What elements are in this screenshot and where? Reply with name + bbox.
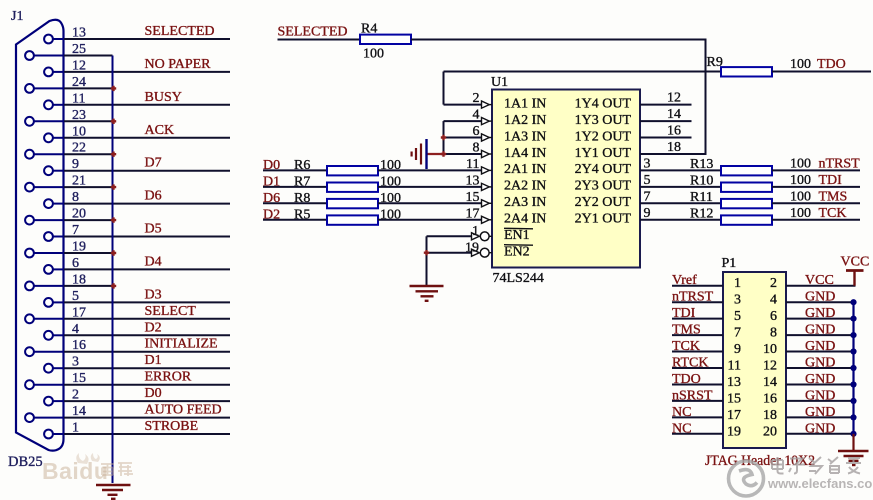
junction pin 21 on ground bus xyxy=(111,184,116,189)
svg-text:P1: P1 xyxy=(722,256,737,271)
svg-text:2A2 IN: 2A2 IN xyxy=(504,179,546,194)
connector J1 pin 2 circle xyxy=(44,397,53,406)
svg-text:20: 20 xyxy=(72,207,86,222)
wire pin 6 stub xyxy=(53,268,64,270)
wire GND bus to ground xyxy=(852,434,854,451)
wire P1 pin2 to VCC xyxy=(786,285,856,287)
wire U1 pin 18 to trunk xyxy=(640,153,707,155)
svg-text:18: 18 xyxy=(667,140,681,155)
wire P1 pin 4 GND xyxy=(786,301,854,303)
wire pin 4 stub xyxy=(53,334,64,336)
wire 1A2-1A4 bracket vertical xyxy=(443,121,445,154)
svg-text:GND: GND xyxy=(805,421,835,436)
junction GND row 8 xyxy=(850,414,856,420)
power symbol VCC xyxy=(853,271,855,286)
svg-text:100: 100 xyxy=(790,189,811,204)
wire pin 15 signal xyxy=(64,384,230,386)
junction at pin8 bracket xyxy=(441,151,446,156)
svg-text:NC: NC xyxy=(672,421,691,436)
svg-text:17: 17 xyxy=(727,408,741,423)
wire D1 to R7 xyxy=(263,186,327,188)
svg-text:12: 12 xyxy=(72,58,86,73)
svg-text:6: 6 xyxy=(473,124,480,139)
svg-text:2: 2 xyxy=(770,276,777,291)
wire pin 14 stub xyxy=(34,417,64,419)
wire pin 13 signal xyxy=(64,38,230,40)
connector J1 pin 6 circle xyxy=(44,265,53,274)
connector J1 pin 5 circle xyxy=(44,298,53,307)
svg-text:1A2 IN: 1A2 IN xyxy=(504,113,546,128)
junction EN2 xyxy=(424,250,429,255)
svg-text:23: 23 xyxy=(72,108,86,123)
connector J1 DB25 body outline xyxy=(16,20,64,451)
resistor R7 xyxy=(327,183,378,192)
svg-text:GND: GND xyxy=(805,388,835,403)
U1 pin 6 input symbol xyxy=(482,134,490,141)
svg-text:2: 2 xyxy=(473,91,480,106)
resistor R4 xyxy=(360,35,411,44)
svg-text:R11: R11 xyxy=(690,190,713,205)
U1 pin 2 input symbol xyxy=(482,101,490,108)
connector J1 pin 12 circle xyxy=(44,68,53,77)
svg-text:R12: R12 xyxy=(690,206,713,221)
wire pin 13 stub xyxy=(53,38,64,40)
svg-text:20: 20 xyxy=(763,424,777,439)
wire R10 to net TDI xyxy=(772,186,860,188)
wire pin 19 to ground bus xyxy=(64,252,113,254)
junction GND row 9 xyxy=(850,431,856,437)
wire pin 12 stub xyxy=(53,71,64,73)
svg-text:TCK: TCK xyxy=(819,206,847,221)
connector J1 pin 19 circle xyxy=(25,249,34,258)
svg-text:2Y3 OUT: 2Y3 OUT xyxy=(575,179,632,194)
junction GND row 7 xyxy=(850,398,856,404)
svg-text:16: 16 xyxy=(667,124,681,139)
svg-text:13: 13 xyxy=(72,26,86,41)
junction at pin6 bracket xyxy=(441,135,446,140)
wire R8 to chip xyxy=(378,202,482,204)
wire pin 16 signal xyxy=(64,351,230,353)
svg-text:100: 100 xyxy=(790,173,811,188)
svg-text:15: 15 xyxy=(727,391,741,406)
junction pin 18 on ground bus xyxy=(111,283,116,288)
svg-text:1: 1 xyxy=(472,224,479,239)
wire pin 11 signal xyxy=(64,104,230,106)
svg-text:GND: GND xyxy=(805,405,835,420)
svg-text:1A3 IN: 1A3 IN xyxy=(504,129,546,144)
wire pin 6 signal xyxy=(64,268,230,270)
wire pin 2 stub xyxy=(53,400,64,402)
wire to pin 6 xyxy=(444,137,482,139)
wire pin 14 signal xyxy=(64,417,230,419)
svg-text:14: 14 xyxy=(667,107,681,122)
svg-text:U1: U1 xyxy=(491,75,508,90)
svg-text:GND: GND xyxy=(805,290,835,305)
svg-text:2A1 IN: 2A1 IN xyxy=(504,162,546,177)
svg-text:R10: R10 xyxy=(690,173,713,188)
svg-text:3: 3 xyxy=(644,156,651,171)
wire pin 23 to ground bus xyxy=(64,120,113,122)
svg-text:10: 10 xyxy=(72,124,86,139)
resistor R9 xyxy=(721,67,772,76)
wire pin 20 to ground bus xyxy=(64,219,113,221)
svg-text:15: 15 xyxy=(72,371,86,386)
wire pin 25 stub xyxy=(34,55,64,57)
svg-text:9: 9 xyxy=(644,206,651,221)
wire to pin 2 xyxy=(444,104,482,106)
svg-text:GND: GND xyxy=(805,306,835,321)
wire EN1 xyxy=(427,235,472,237)
connector J1 pin 18 circle xyxy=(25,282,34,291)
resistor R10 xyxy=(721,183,772,192)
wire R13 to net nTRST xyxy=(772,169,860,171)
junction GND row 4 xyxy=(850,348,856,354)
svg-text:TDO: TDO xyxy=(817,57,846,72)
wire 1A1 bracket vertical xyxy=(443,72,445,105)
svg-text:1Y1 OUT: 1Y1 OUT xyxy=(575,146,632,161)
wire D0 to R6 xyxy=(263,169,327,171)
wire pin 9 stub xyxy=(53,170,64,172)
wire pin 2 signal xyxy=(64,400,230,402)
watermark baidu (decorative) xyxy=(76,453,100,464)
svg-text:15: 15 xyxy=(466,190,480,205)
wire pin 3 stub xyxy=(53,367,64,369)
svg-text:D2: D2 xyxy=(145,320,162,335)
svg-text:3: 3 xyxy=(734,293,741,308)
svg-text:12: 12 xyxy=(763,359,777,374)
wire pin 17 stub xyxy=(34,318,64,320)
wire R7 to chip xyxy=(378,186,482,188)
svg-text:2Y4 OUT: 2Y4 OUT xyxy=(575,162,632,177)
svg-text:5: 5 xyxy=(644,173,651,188)
svg-text:16: 16 xyxy=(763,391,777,406)
U1 pin 17 input symbol xyxy=(482,216,490,223)
svg-text:AUTO FEED: AUTO FEED xyxy=(145,403,222,418)
wire pin 24 stub xyxy=(34,87,64,89)
wire pin 23 stub xyxy=(34,120,64,122)
wire pin 8 stub xyxy=(53,203,64,205)
wire pin 3 signal xyxy=(64,367,230,369)
junction pin 20 on ground bus xyxy=(111,217,116,222)
wire pin 1 signal xyxy=(64,433,230,435)
svg-text:Baidu: Baidu xyxy=(42,458,108,484)
svg-text:DB25: DB25 xyxy=(8,454,43,470)
wire P1 pin 9 xyxy=(672,351,723,353)
svg-text:D0: D0 xyxy=(145,386,162,401)
svg-text:ACK: ACK xyxy=(145,123,175,138)
wire EN2 xyxy=(427,252,472,254)
wire to pin 4 xyxy=(444,120,482,122)
svg-text:1Y3 OUT: 1Y3 OUT xyxy=(575,113,632,128)
svg-text:22: 22 xyxy=(72,141,86,156)
svg-text:100: 100 xyxy=(363,47,384,62)
wire pin 10 stub xyxy=(53,137,64,139)
svg-text:TMS: TMS xyxy=(672,323,701,338)
svg-text:SELECT: SELECT xyxy=(145,304,197,319)
wire pin 19 stub xyxy=(34,252,64,254)
connector J1 pin 16 circle xyxy=(25,347,34,356)
svg-text:17: 17 xyxy=(466,206,480,221)
svg-text:11: 11 xyxy=(72,91,85,106)
wire ground bus vertical x=112 xyxy=(112,56,114,484)
wire pin 18 stub xyxy=(34,285,64,287)
svg-text:GND: GND xyxy=(805,339,835,354)
svg-text:24: 24 xyxy=(72,75,86,90)
watermark elecfans (decorative) xyxy=(729,461,873,496)
svg-text:100: 100 xyxy=(790,156,811,171)
wire P1 pin 11 xyxy=(672,367,723,369)
svg-text:nTRST: nTRST xyxy=(672,290,714,305)
wire P1 pin 16 GND xyxy=(786,400,854,402)
svg-text:SELECTED: SELECTED xyxy=(278,25,348,40)
svg-text:1Y4 OUT: 1Y4 OUT xyxy=(575,96,632,111)
wire R6 to chip xyxy=(378,169,482,171)
connector J1 pin 7 circle xyxy=(44,232,53,241)
svg-text:D1: D1 xyxy=(145,353,162,368)
wire P1 pin 15 xyxy=(672,400,723,402)
svg-text:19: 19 xyxy=(72,240,86,255)
svg-text:100: 100 xyxy=(790,206,811,221)
wire D6 to R8 xyxy=(263,202,327,204)
wire U1 to R11 xyxy=(640,202,721,204)
wire pin 1 stub xyxy=(53,433,64,435)
svg-text:www.elecfans.com: www.elecfans.com xyxy=(767,476,873,491)
svg-text:8: 8 xyxy=(770,326,777,341)
svg-text:74LS244: 74LS244 xyxy=(493,271,544,286)
svg-text:11: 11 xyxy=(466,157,479,172)
wire P1 pin 7 xyxy=(672,334,723,336)
resistor R5 xyxy=(327,215,378,224)
ground symbol (sideways) at 1A inputs xyxy=(427,153,444,155)
junction GND row 5 xyxy=(850,365,856,371)
resistor R8 xyxy=(327,199,378,208)
connector J1 pin 11 circle xyxy=(44,100,53,109)
junction GND row 6 xyxy=(850,381,856,387)
junction GND row 3 xyxy=(850,332,856,338)
wire to pin 8 xyxy=(444,153,482,155)
svg-text:D4: D4 xyxy=(145,254,162,269)
wire pin 5 stub xyxy=(53,301,64,303)
svg-text:STROBE: STROBE xyxy=(145,419,199,434)
ground symbol under DB25 xyxy=(96,485,131,499)
wire P1 pin 12 GND xyxy=(786,367,854,369)
wire P1 pin 5 xyxy=(672,318,723,320)
wire P1 pin 19 xyxy=(672,433,723,435)
connector J1 pin 24 circle xyxy=(25,84,34,93)
connector J1 pin 9 circle xyxy=(44,166,53,175)
svg-text:9: 9 xyxy=(72,157,79,172)
connector J1 pin 8 circle xyxy=(44,199,53,208)
svg-text:GND: GND xyxy=(805,372,835,387)
wire P1 pin 1 xyxy=(672,285,723,287)
svg-text:GND: GND xyxy=(805,323,835,338)
svg-text:VCC: VCC xyxy=(805,273,834,288)
svg-text:12: 12 xyxy=(667,91,681,106)
svg-text:D7: D7 xyxy=(145,156,162,171)
wire pin 10 signal xyxy=(64,137,230,139)
wire U1 to R12 xyxy=(640,219,721,221)
svg-text:2A3 IN: 2A3 IN xyxy=(504,195,546,210)
svg-text:VCC: VCC xyxy=(841,255,870,270)
svg-text:7: 7 xyxy=(644,189,651,204)
wire trunk vertical x=705 xyxy=(705,40,707,155)
svg-text:14: 14 xyxy=(72,404,86,419)
svg-text:17: 17 xyxy=(72,305,86,320)
wire U1 pin 12 stub xyxy=(640,104,692,106)
svg-text:J1: J1 xyxy=(11,9,23,24)
U1 pin 15 input symbol xyxy=(482,200,490,207)
svg-text:13: 13 xyxy=(727,375,741,390)
wire P1 pin 8 GND xyxy=(786,334,854,336)
U1 pin 19 enable symbol xyxy=(472,249,480,256)
svg-text:D5: D5 xyxy=(145,222,162,237)
svg-text:4: 4 xyxy=(72,322,79,337)
wire P1 pin 17 xyxy=(672,416,723,418)
U1 pin 4 input symbol xyxy=(482,118,490,125)
svg-text:2: 2 xyxy=(72,388,79,403)
svg-text:100: 100 xyxy=(790,57,811,72)
wire P1 pin 13 xyxy=(672,384,723,386)
wire pin 8 signal xyxy=(64,203,230,205)
connector J1 pin 3 circle xyxy=(44,364,53,373)
svg-text:ERROR: ERROR xyxy=(145,370,192,385)
U1 pin 1 enable symbol xyxy=(472,233,480,240)
svg-text:1A1 IN: 1A1 IN xyxy=(504,96,546,111)
junction GND row 2 xyxy=(850,316,856,322)
svg-text:7: 7 xyxy=(734,326,741,341)
svg-text:TCK: TCK xyxy=(672,339,700,354)
svg-text:NO PAPER: NO PAPER xyxy=(145,57,212,72)
svg-text:13: 13 xyxy=(466,173,480,188)
svg-text:INITIALIZE: INITIALIZE xyxy=(145,337,218,352)
wire P1 pin 6 GND xyxy=(786,318,854,320)
svg-text:1Y2 OUT: 1Y2 OUT xyxy=(575,129,632,144)
connector J1 pin 21 circle xyxy=(25,183,34,192)
svg-text:16: 16 xyxy=(72,338,86,353)
resistor R12 xyxy=(721,215,772,224)
svg-text:6: 6 xyxy=(72,256,79,271)
wire pin 11 stub xyxy=(53,104,64,106)
svg-text:TDO: TDO xyxy=(672,372,701,387)
svg-text:2A4 IN: 2A4 IN xyxy=(504,212,546,227)
connector J1 pin 20 circle xyxy=(25,216,34,225)
U1 pin 11 input symbol xyxy=(482,167,490,174)
connector J1 pin 17 circle xyxy=(25,314,34,323)
junction pin 19 on ground bus xyxy=(111,250,116,255)
svg-text:SELECTED: SELECTED xyxy=(145,24,215,39)
svg-text:2Y2 OUT: 2Y2 OUT xyxy=(575,195,632,210)
svg-text:BUSY: BUSY xyxy=(145,90,182,105)
svg-text:1A4 IN: 1A4 IN xyxy=(504,146,546,161)
svg-text:TMS: TMS xyxy=(819,189,848,204)
svg-text:7: 7 xyxy=(72,223,79,238)
wire pin 5 signal xyxy=(64,301,230,303)
svg-text:Vref: Vref xyxy=(672,273,697,288)
wire pin 15 stub xyxy=(34,384,64,386)
resistor R13 xyxy=(721,166,772,175)
svg-text:3: 3 xyxy=(72,355,79,370)
wire U1 pin 16 stub xyxy=(640,137,692,139)
svg-text:4: 4 xyxy=(770,293,777,308)
svg-text:EN1: EN1 xyxy=(504,228,530,243)
wire 1A1 feed horizontal y=71.5 xyxy=(444,71,722,73)
connector J1 pin 1 circle xyxy=(44,430,53,439)
svg-text:4: 4 xyxy=(473,108,480,123)
svg-text:TDI: TDI xyxy=(819,173,843,188)
wire pin 9 signal xyxy=(64,170,230,172)
connector J1 pin 22 circle xyxy=(25,150,34,159)
svg-text:9: 9 xyxy=(734,342,741,357)
svg-text:nTRST: nTRST xyxy=(819,156,861,171)
svg-text:2Y1 OUT: 2Y1 OUT xyxy=(575,212,632,227)
svg-text:18: 18 xyxy=(72,272,86,287)
connector J1 pin 23 circle xyxy=(25,117,34,126)
junction pin 22 on ground bus xyxy=(111,152,116,157)
svg-text:10: 10 xyxy=(763,342,777,357)
connector J1 pin 10 circle xyxy=(44,133,53,142)
wire pin 4 signal xyxy=(64,334,230,336)
wire P1 pin 10 GND xyxy=(786,351,854,353)
wire R4 to trunk xyxy=(411,39,707,41)
svg-text:21: 21 xyxy=(72,174,86,189)
svg-text:R13: R13 xyxy=(690,157,713,172)
wire U1 pin 14 stub xyxy=(640,120,692,122)
connector J1 pin 25 circle xyxy=(25,51,34,60)
svg-text:5: 5 xyxy=(734,309,741,324)
wire U1 to R10 xyxy=(640,186,721,188)
wire P1 pin 18 GND xyxy=(786,416,854,418)
wire pin 25 to ground bus xyxy=(64,55,113,57)
wire pin 12 signal xyxy=(64,71,230,73)
wire pin 20 stub xyxy=(34,219,64,221)
svg-text:11: 11 xyxy=(728,359,741,374)
svg-text:nSRST: nSRST xyxy=(672,388,713,403)
ground symbol at EN pins xyxy=(410,286,444,301)
svg-text:EN2: EN2 xyxy=(504,245,530,260)
wire EN vertical to ground xyxy=(426,236,428,285)
svg-text:GND: GND xyxy=(805,356,835,371)
junction pin 23 on ground bus xyxy=(111,119,116,124)
svg-text:1: 1 xyxy=(734,276,741,291)
wire pin 22 stub xyxy=(34,153,64,155)
wire P1 pin 14 GND xyxy=(786,384,854,386)
connector J1 pin 15 circle xyxy=(25,380,34,389)
wire P1 pin 20 GND xyxy=(786,433,854,435)
svg-text:8: 8 xyxy=(473,141,480,156)
U1 pin 8 input symbol xyxy=(482,150,490,157)
wire pin 7 signal xyxy=(64,236,230,238)
wire pin 16 stub xyxy=(34,351,64,353)
connector J1 pin 14 circle xyxy=(25,413,34,422)
ground symbol bottom right xyxy=(838,451,869,465)
resistor R11 xyxy=(721,199,772,208)
wire pin 24 to ground bus xyxy=(64,87,113,89)
U1 pin 13 input symbol xyxy=(482,183,490,190)
svg-text:19: 19 xyxy=(727,424,741,439)
svg-text:19: 19 xyxy=(465,241,479,256)
svg-text:D6: D6 xyxy=(145,189,162,204)
wire GND bus vertical xyxy=(852,302,854,436)
junction pin 24 on ground bus xyxy=(111,86,116,91)
wire pin 17 signal xyxy=(64,318,230,320)
svg-text:1: 1 xyxy=(72,421,79,436)
wire pin 21 stub xyxy=(34,186,64,188)
wire R5 to chip xyxy=(378,219,482,221)
wire P1 pin 3 xyxy=(672,301,723,303)
svg-text:TDI: TDI xyxy=(672,306,696,321)
IC U1 74LS244 body xyxy=(492,90,640,268)
wire R9 to TDO xyxy=(772,71,871,73)
